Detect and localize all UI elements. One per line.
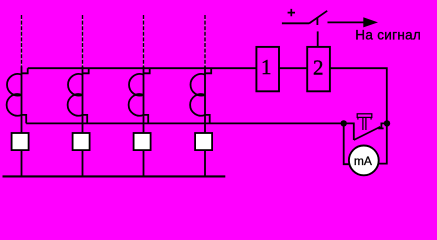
svg-text:1: 1	[261, 55, 272, 79]
svg-text:2: 2	[313, 55, 324, 79]
svg-text:На сигнал: На сигнал	[355, 28, 421, 43]
svg-text:mA: mA	[354, 154, 372, 168]
